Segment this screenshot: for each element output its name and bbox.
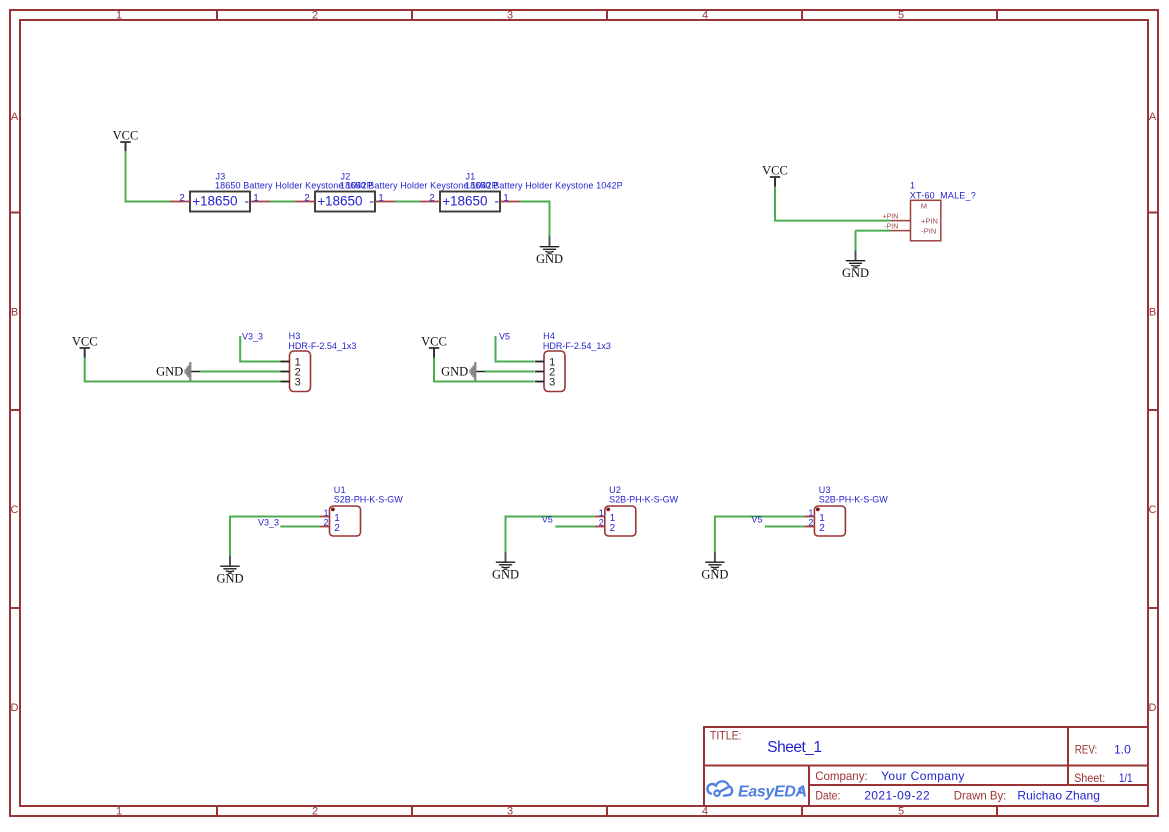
svg-text:U2: U2 <box>609 485 621 495</box>
svg-text:18650: 18650 <box>325 193 363 208</box>
svg-text:-: - <box>370 193 375 208</box>
svg-text:1: 1 <box>599 508 604 518</box>
svg-text:18650: 18650 <box>200 193 238 208</box>
svg-text:TITLE:: TITLE: <box>710 730 742 743</box>
svg-text:1: 1 <box>378 193 384 204</box>
svg-text:A: A <box>11 111 19 123</box>
svg-text:VCC: VCC <box>421 334 447 348</box>
svg-text:18650 Battery Holder Keystone: 18650 Battery Holder Keystone 1042P <box>465 181 623 191</box>
svg-text:Company:: Company: <box>815 770 867 783</box>
svg-text:S2B-PH-K-S-GW: S2B-PH-K-S-GW <box>609 495 679 505</box>
svg-text:4: 4 <box>702 806 708 818</box>
svg-text:2: 2 <box>819 523 825 534</box>
svg-text:D: D <box>11 702 19 714</box>
svg-text:2: 2 <box>599 518 604 528</box>
svg-text:Your Company: Your Company <box>881 769 965 783</box>
svg-text:S2B-PH-K-S-GW: S2B-PH-K-S-GW <box>819 495 889 505</box>
svg-text:3: 3 <box>507 806 513 818</box>
svg-text:H4: H4 <box>543 331 555 341</box>
svg-text:B: B <box>11 307 18 319</box>
svg-text:2: 2 <box>808 518 813 528</box>
svg-text:2: 2 <box>610 523 616 534</box>
svg-text:VCC: VCC <box>762 163 788 177</box>
svg-text:EasyEDA: EasyEDA <box>738 783 807 800</box>
svg-text:-PIN: -PIN <box>884 223 898 230</box>
svg-text:1: 1 <box>503 193 509 204</box>
svg-text:V5: V5 <box>499 331 510 341</box>
svg-text:GND: GND <box>441 364 468 378</box>
svg-text:1: 1 <box>910 180 915 190</box>
svg-text:3: 3 <box>549 376 555 388</box>
svg-text:GND: GND <box>536 252 563 266</box>
svg-text:XT-60_MALE_?: XT-60_MALE_? <box>910 191 976 201</box>
svg-text:+PIN: +PIN <box>883 213 899 220</box>
svg-text:REV:: REV: <box>1075 744 1098 757</box>
svg-text:H3: H3 <box>289 331 301 341</box>
svg-text:3: 3 <box>507 10 513 22</box>
svg-text:GND: GND <box>701 568 728 582</box>
svg-text:GND: GND <box>492 568 519 582</box>
svg-text:Date:: Date: <box>815 790 840 803</box>
svg-text:Sheet:: Sheet: <box>1074 773 1105 786</box>
svg-text:V3_3: V3_3 <box>258 517 279 527</box>
svg-text:M: M <box>921 202 927 211</box>
svg-text:1.0: 1.0 <box>1114 742 1131 756</box>
svg-text:C: C <box>1149 504 1157 516</box>
svg-text:2: 2 <box>334 523 340 534</box>
svg-text:HDR-F-2.54_1x3: HDR-F-2.54_1x3 <box>543 341 611 351</box>
svg-text:S2B-PH-K-S-GW: S2B-PH-K-S-GW <box>334 495 404 505</box>
svg-text:2: 2 <box>304 193 310 204</box>
svg-text:2: 2 <box>429 193 435 204</box>
svg-text:V5: V5 <box>542 514 553 524</box>
svg-text:3: 3 <box>295 376 301 388</box>
svg-text:2: 2 <box>179 193 185 204</box>
svg-text:Drawn By:: Drawn By: <box>954 789 1007 802</box>
svg-text:-PIN: -PIN <box>921 226 936 235</box>
svg-text:U1: U1 <box>334 485 346 495</box>
svg-text:5: 5 <box>898 10 904 22</box>
svg-text:VCC: VCC <box>72 334 98 348</box>
svg-text:C: C <box>11 504 19 516</box>
svg-text:A: A <box>1149 111 1157 123</box>
svg-text:1: 1 <box>808 508 813 518</box>
svg-text:B: B <box>1149 307 1156 319</box>
svg-text:1: 1 <box>116 806 122 818</box>
svg-text:VCC: VCC <box>113 128 139 142</box>
svg-text:HDR-F-2.54_1x3: HDR-F-2.54_1x3 <box>288 341 356 351</box>
svg-text:V3_3: V3_3 <box>242 331 263 341</box>
svg-text:-: - <box>245 193 250 208</box>
svg-text:2: 2 <box>323 518 328 528</box>
svg-text:GND: GND <box>156 364 183 378</box>
svg-text:GND: GND <box>842 266 869 280</box>
svg-text:5: 5 <box>898 806 904 818</box>
svg-text:-: - <box>495 193 500 208</box>
svg-text:Sheet_1: Sheet_1 <box>767 739 821 756</box>
svg-text:2021-09-22: 2021-09-22 <box>864 789 930 803</box>
svg-text:GND: GND <box>216 572 243 586</box>
svg-text:4: 4 <box>702 10 708 22</box>
svg-text:1: 1 <box>323 508 328 518</box>
svg-text:U3: U3 <box>819 485 831 495</box>
svg-text:V5: V5 <box>751 514 762 524</box>
svg-text:1/1: 1/1 <box>1119 772 1133 785</box>
svg-text:2: 2 <box>312 10 318 22</box>
svg-text:1: 1 <box>116 10 122 22</box>
svg-text:D: D <box>1149 702 1157 714</box>
svg-text:+PIN: +PIN <box>921 217 938 226</box>
svg-text:2: 2 <box>312 806 318 818</box>
svg-text:1: 1 <box>253 193 259 204</box>
svg-text:18650: 18650 <box>450 193 488 208</box>
svg-text:Ruichao Zhang: Ruichao Zhang <box>1017 789 1100 803</box>
